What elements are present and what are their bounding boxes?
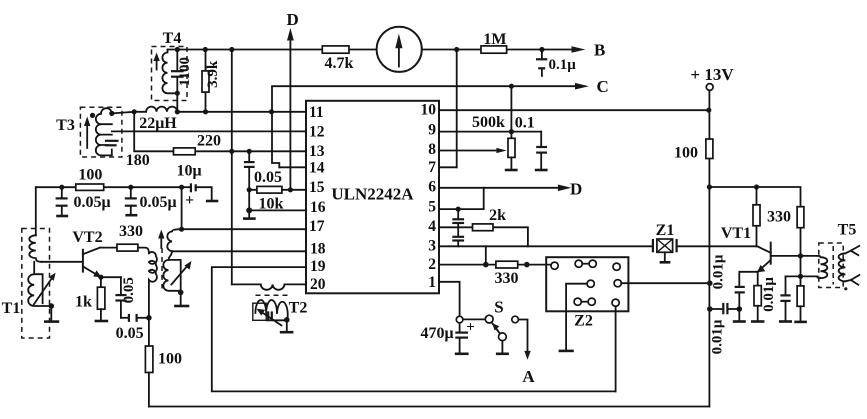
T5 right winding (839, 253, 846, 281)
wire pin8 wiper (439, 150, 497, 152)
node T1 tank (49, 303, 55, 309)
svg-text:VT2: VT2 (72, 229, 102, 246)
T3 core arrow (84, 117, 90, 148)
transformer T2 tank (253, 300, 308, 326)
Z2 bottom wire (615, 306, 617, 391)
svg-text:1100: 1100 (177, 57, 193, 86)
node 22uH right (175, 109, 180, 114)
node 330 top (754, 184, 759, 189)
wire pin19 loop (212, 267, 616, 391)
wire emitter row (101, 276, 121, 278)
svg-text:17: 17 (309, 218, 325, 235)
node C-pin11 (269, 109, 274, 114)
transformer T1 dashed box (2, 229, 50, 339)
svg-text:1M: 1M (483, 31, 506, 48)
node pin5 cap (456, 207, 461, 212)
svg-text:19: 19 (310, 258, 326, 275)
capacitor pin4-pin3 (452, 227, 464, 246)
svg-text:4.7k: 4.7k (325, 55, 354, 72)
svg-text:100: 100 (674, 145, 698, 162)
svg-text:1: 1 (428, 274, 436, 291)
wire top rail (168, 49, 572, 51)
node pin2 right (524, 262, 530, 268)
svg-text:3.9k: 3.9k (205, 60, 221, 88)
node rail pin10 (706, 108, 711, 113)
resistor 100 left (76, 167, 104, 191)
switch S (485, 298, 509, 354)
svg-text:18: 18 (310, 241, 326, 258)
crystal Z1 (653, 222, 677, 252)
resistor right chain lower (794, 228, 807, 322)
resistor 330 pin2 (495, 261, 519, 287)
svg-text:T1: T1 (2, 300, 21, 317)
switch contact A (512, 316, 536, 386)
T4 winding (162, 50, 177, 94)
wire emitter down (757, 272, 759, 286)
inductor 22uH (134, 107, 177, 132)
svg-text:Z2: Z2 (574, 313, 593, 330)
wire left edge down (35, 187, 37, 235)
wire pin17 (182, 228, 306, 230)
svg-text:VT1: VT1 (721, 225, 751, 242)
IC U1 ULN2242A body (306, 101, 439, 293)
node T3 top-left (90, 113, 95, 118)
resistor 100 right (674, 139, 713, 162)
ground emitter cap (733, 309, 746, 322)
node wire275 x800 (798, 274, 803, 279)
node 10k left (247, 187, 252, 192)
wire pin5 (439, 188, 484, 209)
svg-text:500k: 500k (472, 114, 505, 131)
coupling core dashed (161, 248, 163, 289)
wire pin9 (439, 131, 541, 133)
svg-text:22μH: 22μH (139, 115, 177, 132)
transformer T3 dashed box (56, 107, 122, 157)
T5 left winding (818, 256, 828, 278)
ground Z1 (660, 252, 671, 262)
node 3.9k top (203, 47, 208, 52)
transformer VT2-coupling right winding (167, 229, 181, 251)
capacitor 0.05 vertical (115, 277, 136, 318)
resistor 3.9k (202, 50, 221, 112)
svg-text:330: 330 (119, 223, 143, 240)
svg-text:ULN2242A: ULN2242A (331, 185, 414, 204)
T4 core arrow (153, 53, 159, 70)
capacitor 0.05 horizontal (116, 314, 149, 342)
wire pin18 (172, 250, 306, 252)
wire pin1 to S (439, 282, 460, 316)
wire pin4 with 2k (439, 227, 528, 246)
resistor 330 VT2 (117, 223, 143, 251)
svg-text:D: D (287, 10, 299, 29)
arrow B (572, 41, 606, 60)
svg-text:330: 330 (495, 270, 519, 287)
capacitor 10u (176, 163, 218, 210)
svg-text:+: + (185, 192, 194, 209)
resistor 4.7k (322, 46, 353, 72)
svg-text:220: 220 (197, 133, 221, 150)
svg-text:0.05: 0.05 (254, 169, 282, 186)
capacitor pin5-pin4 (452, 209, 464, 227)
svg-text:100: 100 (158, 351, 182, 368)
wire pin11 (177, 111, 306, 113)
svg-text:100: 100 (78, 167, 102, 184)
svg-text:A: A (522, 367, 535, 386)
resistor 220 (174, 133, 222, 155)
node T2 right (284, 317, 290, 323)
node 0.05 chain top (247, 149, 252, 154)
Z2 terminal circles (551, 262, 558, 269)
wire winding to tank (169, 251, 173, 260)
node pin9-pot (509, 129, 514, 134)
svg-text:B: B (594, 41, 605, 60)
wire pin2 with 330 (439, 264, 551, 266)
wire T5 bottom row (786, 275, 818, 277)
wire +13V rail down (708, 90, 710, 406)
coupling core arrow (158, 230, 164, 248)
svg-text:0.01μ: 0.01μ (710, 254, 726, 289)
resistor 100 bottom (145, 318, 182, 407)
filter Z2 (546, 257, 628, 329)
node 0.05u no1 (59, 185, 64, 190)
T5 bottom fork (845, 275, 859, 285)
svg-text:1k: 1k (75, 294, 92, 311)
transistor VT2 (72, 229, 102, 278)
T3 internal capacitor (105, 141, 119, 146)
svg-text:12: 12 (309, 124, 325, 141)
arrow C (575, 77, 609, 96)
T1 tank (28, 262, 55, 306)
node rail z2 (707, 280, 713, 286)
svg-text:0.1μ: 0.1μ (549, 57, 577, 73)
svg-text:0.1: 0.1 (515, 115, 535, 132)
ground under 10k chain (243, 190, 256, 219)
node 10k right D (288, 187, 293, 192)
node B-cap (539, 47, 544, 52)
svg-text:330: 330 (767, 209, 791, 226)
node T4 bottom (175, 91, 180, 96)
svg-text:0.01μ: 0.01μ (710, 319, 726, 354)
transformer T5 (819, 222, 857, 288)
svg-text:11: 11 (309, 104, 324, 121)
tuned tank mid (163, 260, 191, 293)
svg-text:2k: 2k (489, 207, 506, 224)
supply +13V (690, 65, 734, 90)
svg-text:C: C (597, 77, 609, 96)
svg-text:470μ: 470μ (420, 325, 453, 342)
svg-text:0.05: 0.05 (121, 277, 137, 303)
wire VT2 collector (100, 247, 117, 249)
potentiometer 500k (472, 86, 518, 170)
wire to switch pivot (463, 318, 485, 320)
svg-text:10μ: 10μ (176, 163, 201, 180)
node x232 top (229, 47, 234, 52)
terminal circle pin1 (456, 316, 463, 323)
ground T1 (44, 306, 59, 322)
resistor 1k (75, 277, 108, 321)
node C-500k (509, 84, 514, 89)
arrow D top (287, 10, 299, 190)
svg-text:0.01μ: 0.01μ (761, 277, 777, 312)
Z2 right wire (621, 282, 710, 284)
svg-text:10: 10 (421, 102, 437, 119)
svg-text:3: 3 (428, 238, 436, 255)
node rail top-right (707, 184, 712, 189)
svg-text:20: 20 (310, 276, 326, 293)
wire pin12 (112, 130, 306, 132)
svg-text:T5: T5 (838, 222, 857, 239)
capacitor 470u (420, 320, 474, 354)
resistor emitter VT1 (751, 286, 764, 322)
svg-text:0.05μ: 0.05μ (139, 194, 176, 211)
transformer T2 core dashes (256, 294, 288, 296)
node pin16 gnd (246, 207, 252, 213)
wire pin7 (439, 166, 457, 168)
svg-text:T3: T3 (56, 117, 75, 134)
svg-text:13: 13 (309, 143, 325, 160)
node 3.9k bottom (203, 109, 208, 114)
transformer T4 dashed box (152, 30, 188, 101)
svg-text:2: 2 (428, 256, 436, 273)
svg-text:6: 6 (428, 179, 436, 196)
node 220-x232 (229, 149, 234, 154)
node T3 top (109, 111, 114, 116)
resistor 330 bias (753, 187, 791, 246)
wire pin20 with choke (232, 284, 306, 289)
node 1100 top (175, 47, 180, 52)
wire VT2 base (42, 261, 82, 263)
wire meter junction down (456, 50, 458, 168)
T5 top fork (845, 246, 859, 255)
wire pin15 with 10k (249, 189, 306, 191)
svg-text:16: 16 (310, 199, 326, 216)
wire 10u tap down to pin17 (181, 187, 183, 229)
capacitor 0.1 right of 500k (515, 115, 548, 170)
node pin17 junction (179, 227, 184, 232)
node 22uH left (132, 109, 137, 114)
T3 winding (96, 108, 112, 155)
capacitor output 0.01u (779, 276, 792, 321)
wire pin16 (249, 209, 306, 211)
wire C line with corner (272, 86, 575, 167)
svg-text:+ 13V: + 13V (690, 65, 734, 84)
svg-text:9: 9 (428, 122, 436, 139)
capacitor 0.1u at B (536, 50, 576, 76)
capacitor 0.05u no1 (56, 187, 111, 216)
arrow D right (558, 180, 582, 199)
wire Z1 to VT1 base (677, 246, 771, 253)
node collector x800 (798, 253, 803, 258)
svg-text:+: + (466, 320, 475, 336)
node 0.05 junction (146, 315, 152, 321)
capacitor series 0.01u (710, 303, 740, 354)
resistor 10k (257, 186, 284, 212)
svg-text:5: 5 (428, 199, 436, 216)
wire bottom outer (149, 406, 709, 408)
ground T2 (280, 320, 294, 332)
wire pin14 (279, 166, 306, 168)
wire pin2 up (485, 246, 487, 264)
node VT2 emitter (98, 275, 103, 280)
svg-text:7: 7 (428, 159, 436, 176)
resistor 1M (481, 31, 507, 53)
T1 upper winding (29, 235, 41, 261)
svg-text:8: 8 (428, 141, 436, 158)
node 0.05u no2 (128, 185, 133, 190)
capacitor emitter bypass (735, 272, 758, 309)
svg-text:T4: T4 (163, 30, 182, 47)
wire 100 row (36, 186, 190, 188)
node meter-1M (454, 47, 459, 52)
node tank bottom (178, 290, 184, 296)
svg-text:S: S (494, 298, 503, 317)
svg-text:14: 14 (309, 160, 325, 177)
wire pin10 (439, 109, 709, 111)
wire top right rail (709, 187, 800, 207)
node rail series cap (707, 306, 713, 312)
node pin2 left (483, 262, 489, 268)
svg-text:4: 4 (428, 218, 436, 235)
svg-text:Z1: Z1 (656, 222, 675, 239)
svg-text:T2: T2 (289, 300, 308, 317)
ground tank mid (174, 292, 189, 306)
capacitor 0.05 chain (244, 151, 282, 190)
coupling left winding (149, 252, 157, 318)
wire pin13 with 220 (134, 112, 306, 152)
wire pin3 to Z1 (439, 245, 653, 247)
svg-text:0.05: 0.05 (116, 325, 144, 342)
node 10u tap (179, 185, 184, 190)
Z2 middle-left trace to ground (559, 284, 588, 351)
capacitor 1100 (171, 50, 193, 112)
transistor VT1 (721, 225, 818, 273)
resistor 2k (473, 207, 507, 231)
svg-text:15: 15 (309, 179, 325, 196)
node T5 dot (844, 287, 847, 290)
node emitter cap bottom (737, 306, 743, 312)
wire T3 to 22uH (112, 112, 134, 114)
resistor right chain upper (797, 207, 804, 228)
wire pin6 to D (439, 187, 559, 189)
svg-text:D: D (570, 180, 582, 199)
wire long vertical x232 (231, 50, 233, 285)
svg-text:0.05μ: 0.05μ (73, 194, 110, 211)
capacitor 0.05u no2 (125, 187, 177, 215)
meter M (377, 27, 422, 72)
svg-text:180: 180 (126, 152, 150, 169)
